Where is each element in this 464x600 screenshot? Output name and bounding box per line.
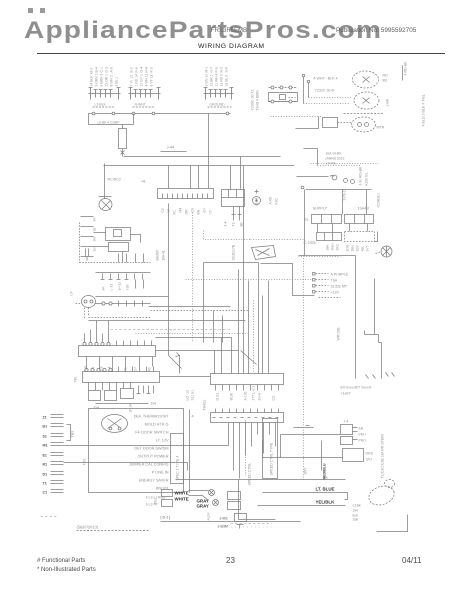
label AU vertical: [207, 511, 211, 520]
svg-text:J-30 RD+BK: J-30 RD+BK: [359, 166, 363, 186]
svg-text:DKS: DKS: [366, 452, 374, 456]
svg-text:J5A: J5A: [94, 406, 101, 410]
svg-text:J5B: J5B: [353, 518, 359, 522]
wire long bus y320: [89, 320, 246, 322]
label 2RY: [304, 467, 308, 475]
svg-text:C-100L: C-100L: [304, 240, 318, 245]
svg-text:DET DOOR SW/DM: DET DOOR SW/DM: [134, 447, 168, 451]
bracket TB3: [67, 425, 71, 441]
CN1 feeds up: [85, 321, 109, 343]
wire lamp stub: [402, 66, 404, 81]
splice note: [341, 386, 372, 396]
svg-text:+12V: +12V: [331, 291, 340, 295]
svg-text:BL: BL: [305, 218, 309, 222]
label SC E1 vertical: [232, 244, 236, 260]
wire main vertical 168: [168, 204, 170, 347]
wire terminal link 1: [64, 423, 229, 446]
svg-text:A-5: A-5: [110, 67, 114, 72]
wire dotted corner 203: [204, 231, 251, 240]
svg-text:D7: D7: [134, 367, 138, 371]
svg-text:D-3: D-3: [105, 67, 109, 73]
terminal block TB2 row2 right: [345, 232, 378, 242]
wire supply feed vertical: [304, 190, 306, 256]
svg-text:SL/DE MT: SL/DE MT: [331, 285, 348, 289]
svg-text:T5A: T5A: [331, 279, 338, 283]
footer functional parts: [37, 558, 85, 564]
wire dotted mid: [299, 256, 341, 258]
svg-text:SPEC 2 TYPE 4: SPEC 2 TYPE 4: [176, 456, 180, 481]
svg-text:4: 4: [192, 415, 194, 419]
svg-text:GY: GY: [203, 207, 207, 213]
svg-text:J-4: J-4: [344, 420, 349, 424]
svg-text:K230 B1: K230 B1: [365, 172, 369, 185]
wire dotted to C100: [251, 239, 304, 241]
defrost heater switch diag: [241, 351, 257, 365]
footer page number: [226, 556, 235, 565]
lamp L2: [354, 92, 379, 109]
relay blocks R right: [228, 492, 241, 510]
K2 labels: [216, 391, 276, 400]
wire relay leads: [94, 233, 141, 263]
svg-text:S-9: S-9: [225, 67, 229, 72]
wire thermostat route: [261, 264, 315, 296]
label 5697: [77, 525, 99, 530]
connector P1 labels: [90, 67, 119, 107]
label supply feed: [343, 189, 347, 201]
svg-text:GRAY: GRAY: [197, 504, 209, 509]
svg-text:16 BL 3: 16 BL 3: [225, 75, 229, 87]
wire supply bottom: [299, 255, 356, 257]
wire bus A: [124, 156, 281, 158]
controller legend box: [89, 409, 184, 493]
wire vertical 238: [238, 270, 240, 374]
CN1 labels: [84, 365, 152, 372]
splice X2: [213, 500, 219, 506]
label speed ctrl vertical: [248, 463, 252, 486]
svg-text:MOLD HTR G: MOLD HTR G: [145, 423, 169, 427]
svg-text:J-M3: J-M3: [220, 517, 228, 521]
comb D labels: [102, 282, 130, 291]
wire dotted J6: [318, 165, 361, 167]
svg-text:WHITE: WHITE: [175, 497, 189, 502]
label cluster row2 left: [326, 243, 340, 251]
CN2 bottom labels: [94, 399, 207, 412]
label J5 rows: [331, 273, 349, 295]
J4 labels: [344, 420, 367, 443]
board U1 pin ticks: [163, 194, 208, 199]
svg-text:E-2: E-2: [130, 67, 134, 72]
connector J4: [341, 425, 358, 445]
switch S7 blade: [169, 347, 182, 374]
label YEL BLK: [316, 500, 336, 505]
terminal block TB2 row2 left: [317, 233, 342, 241]
svg-text:YEL/BLK: YEL/BLK: [316, 500, 336, 505]
svg-text:C1BK: C1BK: [353, 504, 362, 508]
svg-text:3RD: 3RD: [336, 243, 340, 250]
wire J3 lower: [296, 117, 319, 129]
label SUPPLY: [313, 207, 328, 211]
svg-text:PRU: PRU: [359, 433, 367, 437]
wire long bottom: [161, 521, 301, 523]
wire pink left: [41, 516, 58, 518]
wire L bus 203: [204, 263, 259, 374]
contact ticks: [137, 386, 154, 394]
label HEATER: [358, 207, 370, 211]
svg-text:T3: T3: [232, 222, 236, 226]
wire purple bus vertical: [303, 256, 305, 481]
wire white leads: [189, 491, 209, 501]
board U1 pin labels: [161, 207, 213, 215]
compressor C1: [99, 199, 112, 211]
label 4 WHT BLK: [314, 77, 338, 93]
svg-text:13 OR 1: 13 OR 1: [105, 74, 109, 87]
svg-text:9 GRN 1: 9 GRN 1: [95, 73, 99, 86]
svg-text:FF DOOR SWITCH: FF DOOR SWITCH: [135, 431, 168, 435]
wire redblu: [321, 441, 323, 471]
splice X1: [209, 490, 215, 496]
K2 pin ticks: [216, 385, 279, 391]
svg-text:P LINE IN: P LINE IN: [152, 471, 169, 475]
svg-text:9C/8: 9C/8: [230, 393, 234, 400]
label WP J5B vertical: [337, 327, 341, 341]
wire lamp feed 1: [303, 77, 305, 104]
wire J5 rows: [316, 274, 329, 292]
wire pink bottom: [231, 523, 272, 525]
lamp L1 filament: [363, 77, 370, 83]
svg-text:DEF. THERMOSTAT: DEF. THERMOSTAT: [134, 415, 169, 419]
svg-text:GROUND: GROUND: [210, 103, 226, 107]
wire lower buses: [149, 306, 231, 308]
label Bk: [324, 476, 328, 480]
svg-text:EV:moxxlST SxxxX: EV:moxxlST SxxxX: [341, 386, 372, 390]
wire verticals 243-253: [244, 166, 249, 374]
svg-text:3GY: 3GY: [356, 244, 360, 251]
svg-text:P-5: P-5: [215, 67, 219, 72]
svg-text:2BN: 2BN: [351, 245, 355, 252]
node mark2: [40, 8, 45, 13]
label A RD vertical: [269, 196, 279, 204]
svg-text:LT. 12V: LT. 12V: [156, 439, 169, 443]
svg-text:Y2B: Y2B: [126, 284, 130, 290]
connector P3 comb: [204, 88, 234, 100]
wire top white: [176, 479, 346, 481]
svg-text:(5697/2013): (5697/2013): [77, 525, 99, 530]
svg-text:J-L3 ***: J-L3 ***: [146, 503, 159, 507]
wire right drop 2: [365, 279, 382, 379]
wire dashed lower: [89, 317, 151, 319]
svg-text:3B: 3B: [93, 228, 97, 232]
indicator lamp DS1: [381, 246, 392, 257]
wire compressor feed: [99, 164, 112, 199]
CN1-CN2 links: [87, 357, 153, 372]
svg-text:TB3: TB3: [71, 431, 75, 438]
motor M2 condenser fan: [82, 296, 96, 308]
wire pink dashed: [111, 329, 231, 331]
label GRAY 2: [197, 504, 209, 509]
svg-text:AU3Y: AU3Y: [207, 511, 211, 520]
wire comb underlines: [93, 106, 232, 108]
wire dotted y333: [136, 333, 246, 335]
svg-text:2W: 2W: [93, 237, 97, 242]
wire to fuse: [89, 114, 134, 129]
CN1 top ticks: [117, 341, 152, 346]
svg-text:1H-12: 1H-12: [118, 282, 122, 291]
svg-text:A PURPLE: A PURPLE: [331, 273, 349, 277]
legend text rows: [129, 415, 169, 491]
svg-text:SPEED CTRL: SPEED CTRL: [248, 463, 252, 486]
svg-text:J-B3M: J-B3M: [218, 525, 228, 529]
svg-text:4BL: 4BL: [361, 246, 365, 252]
terminal strip TB3 rows: [43, 415, 64, 495]
svg-text:L6-BK 4 COMP: L6-BK 4 COMP: [98, 121, 120, 125]
wire box1 right: [156, 350, 239, 352]
svg-text:[ D-1 ]: [ D-1 ]: [161, 516, 171, 520]
CN2 top circles: [85, 368, 112, 371]
svg-text:14 BLK 4: 14 BLK 4: [90, 72, 94, 86]
svg-text:RD: RD: [383, 74, 389, 78]
svg-text:O G1: O G1: [216, 392, 220, 400]
wire terminal link 2: [64, 463, 188, 471]
watermark: [24, 17, 382, 45]
svg-text:SUPPLY: SUPPLY: [313, 207, 328, 211]
svg-text:5VT: 5VT: [366, 246, 370, 252]
svg-text:BN: BN: [197, 209, 201, 214]
K3 ticks top: [216, 409, 279, 413]
wire vertical 213: [214, 311, 223, 343]
svg-text:B3: B3: [383, 79, 387, 83]
connector comb E: [96, 301, 151, 307]
svg-text:L-X2: L-X2: [110, 284, 114, 291]
connector P2 labels: [130, 67, 154, 107]
relay K1 enclosure: [80, 223, 151, 263]
svg-text:1BK: 1BK: [326, 244, 330, 251]
wire fuse to bus: [121, 149, 125, 157]
svg-text:12 BK 1: 12 BK 1: [210, 74, 214, 86]
damper module box: [263, 419, 278, 479]
label J-44: [167, 145, 176, 150]
connector P3 labels: [205, 67, 229, 107]
svg-text:J-L3 ( ) R6D: J-L3 ( ) R6D: [146, 496, 166, 500]
svg-text:R-2: R-2: [220, 67, 224, 73]
wire evap connector: [271, 116, 323, 118]
connector J30 circles: [344, 179, 355, 184]
svg-text:15A4B: 15A4B: [358, 207, 370, 211]
label REDBLU vertical: [323, 463, 327, 479]
svg-text:1M-41: 1M-41: [162, 250, 166, 260]
svg-text:ENERGY SAVER: ENERGY SAVER: [139, 479, 169, 483]
wire boxA feeds: [215, 338, 232, 374]
wire lt blue: [263, 493, 348, 500]
svg-text:Y230C 30 T1: Y230C 30 T1: [251, 89, 255, 110]
wire vertical 262-268: [262, 296, 264, 374]
switch S5: [121, 389, 134, 399]
wire dotted feed: [186, 279, 313, 281]
connector comb D: [96, 273, 151, 289]
label RC DC2: [108, 178, 146, 184]
wire dotted vertical 253: [253, 301, 255, 374]
label heater col vertical: [377, 193, 381, 207]
wire stub J6: [304, 149, 318, 166]
svg-text:A-1/O: A-1/O: [244, 391, 248, 400]
wire K3 h434: [281, 435, 341, 458]
lamp L2 filament: [363, 98, 370, 104]
CN2 pin drops: [89, 383, 131, 391]
svg-text:4 WHT - BLK 4: 4 WHT - BLK 4: [314, 77, 338, 81]
svg-text:-41: -41: [141, 180, 146, 184]
wire drop P3: [208, 114, 210, 157]
svg-text:Z1: Z1: [43, 416, 47, 420]
svg-text:N-WHT: N-WHT: [135, 103, 146, 107]
overload OL1: [109, 243, 129, 252]
wire heater feed: [306, 190, 372, 215]
DKS labels: [366, 452, 374, 462]
svg-text:MTR: MTR: [377, 126, 385, 130]
svg-text:M4: M4: [179, 208, 183, 213]
label 4: [192, 415, 194, 419]
splice marks: [366, 373, 395, 379]
label J77 vertical: [252, 386, 256, 401]
svg-text:G-4: G-4: [140, 67, 144, 73]
connector pins column: [81, 217, 97, 257]
label J-L3 rows: [146, 496, 166, 507]
relay board K2: [211, 374, 284, 385]
wire J3 to motor: [338, 122, 352, 124]
svg-text:A5: A5: [148, 367, 152, 371]
K3 pin crosses: [213, 417, 279, 419]
svg-text:C2: C2: [161, 208, 165, 212]
svg-text:A RD: A RD: [269, 196, 273, 204]
svg-text:J-BK: J-BK: [386, 98, 390, 106]
svg-text:PRO: PRO: [359, 439, 367, 443]
connector P1 comb: [89, 88, 121, 100]
relay board K3: [211, 413, 284, 423]
node junction circles: [92, 112, 229, 115]
switch S3: [89, 391, 101, 401]
svg-text:WHITE: WHITE: [175, 491, 189, 496]
svg-text:S1: S1: [43, 435, 47, 439]
label J5 column: [353, 504, 362, 522]
label S7: [186, 390, 195, 401]
diode D box: [235, 514, 247, 522]
coil J30: [330, 175, 337, 180]
wire lamp feed 2: [308, 83, 310, 98]
wire legend right: [189, 410, 191, 493]
wire yel blk: [258, 505, 346, 507]
connector J2 block: [269, 86, 298, 103]
svg-text:J-4: J-4: [224, 222, 228, 227]
wire 5697 dashes: [77, 530, 149, 532]
U2 pin drops: [232, 207, 242, 221]
svg-text:4 WH 11: 4 WH 11: [145, 73, 149, 86]
CN2 ticks: [119, 367, 154, 372]
wire cn2 lower: [96, 403, 149, 405]
label J-M3: [220, 517, 228, 521]
svg-text:LT. BLUE: LT. BLUE: [316, 487, 335, 492]
svg-text:J6A 14-BK: J6A 14-BK: [326, 152, 343, 156]
svg-text:3 GN 10: 3 GN 10: [205, 74, 209, 87]
svg-text:15 RD 2: 15 RD 2: [220, 74, 224, 87]
connector P2 comb: [129, 88, 161, 100]
label lamp right: [377, 74, 390, 130]
svg-text:TL/C3C/C3E (3A PR STER): TL/C3C/C3E (3A PR STER): [381, 434, 385, 479]
connector CN2 row2 box: [83, 372, 160, 383]
label C-100L: [304, 240, 318, 245]
motor M1 evap fan: [352, 117, 376, 132]
defrost thermostat S2: [252, 246, 276, 260]
switch S4: [105, 391, 117, 401]
svg-text:N-7: N-7: [210, 67, 214, 73]
motor M3 aug fan: [102, 415, 128, 433]
wire lamp cross dashed: [344, 113, 384, 115]
label Y230C vertical: [251, 89, 260, 110]
footer non-illustrated: [37, 567, 96, 573]
wire +12V dashed: [319, 297, 341, 299]
speed type box: [171, 434, 184, 484]
wire jog mid: [294, 426, 314, 428]
svg-text:T1: T1: [43, 482, 47, 486]
title WIRING DIAGRAM: [198, 43, 265, 50]
label BL: [305, 218, 309, 222]
svg-text:(C2/B3C): (C2/B3C): [377, 193, 381, 207]
svg-text:10 GY 1: 10 GY 1: [140, 74, 144, 86]
svg-text:L1-BLK: L1-BLK: [95, 103, 107, 107]
svg-text:1G: 1G: [93, 247, 97, 252]
svg-text:1 RD 14: 1 RD 14: [135, 74, 139, 87]
wire dotted vertical 192: [192, 213, 194, 343]
wire legend dashed: [245, 421, 247, 476]
wire drops to board: [169, 157, 241, 190]
wire label dash: [161, 151, 187, 153]
label U2 right vertical: [255, 198, 259, 206]
fuse F1: [119, 129, 127, 149]
svg-text:B1: B1: [43, 425, 48, 429]
wire DS1 stub: [376, 252, 382, 254]
label cluster row2 right: [346, 244, 370, 251]
title rule: [37, 53, 445, 54]
bracket corner: [377, 515, 408, 532]
wire J5 feeds: [268, 281, 270, 374]
wire row links: [318, 224, 368, 233]
svg-text:F-6: F-6: [135, 67, 139, 72]
svg-text:H-8: H-8: [145, 67, 149, 73]
svg-text:8B: 8B: [240, 222, 244, 227]
svg-text:SC/E1/7B: SC/E1/7B: [232, 244, 236, 260]
svg-text:11 WH 4: 11 WH 4: [215, 73, 219, 86]
svg-text:2RY: 2RY: [304, 467, 308, 475]
connector J3 evap: [323, 118, 338, 128]
svg-text:#R: #R: [102, 286, 106, 291]
terminal block TB heater: [345, 215, 374, 224]
svg-text:M-1: M-1: [205, 67, 209, 73]
wire cn top bus: [156, 337, 232, 339]
label J-B3M: [218, 525, 228, 529]
svg-text:2 BL 1: 2 BL 1: [115, 77, 119, 87]
svg-text:J77 L-C1: J77 L-C1: [252, 386, 256, 401]
label comp line: [98, 121, 120, 125]
svg-text:F2C: F2C: [275, 198, 279, 205]
label right column vertical: [404, 61, 426, 127]
svg-text:8 WH 2: 8 WH 2: [110, 75, 114, 86]
svg-text:WP/J5B: WP/J5B: [337, 327, 341, 341]
svg-text:4 RD-BK: 4 RD-BK: [404, 61, 408, 76]
switch DKS: [343, 449, 364, 462]
svg-text:7 YL 12: 7 YL 12: [130, 75, 134, 87]
wire J2 dashes: [289, 88, 296, 98]
svg-text:Bk: Bk: [324, 476, 328, 480]
wire drop 240: [239, 480, 276, 520]
node mark1: [28, 8, 33, 13]
wire dashed y310: [151, 310, 249, 312]
